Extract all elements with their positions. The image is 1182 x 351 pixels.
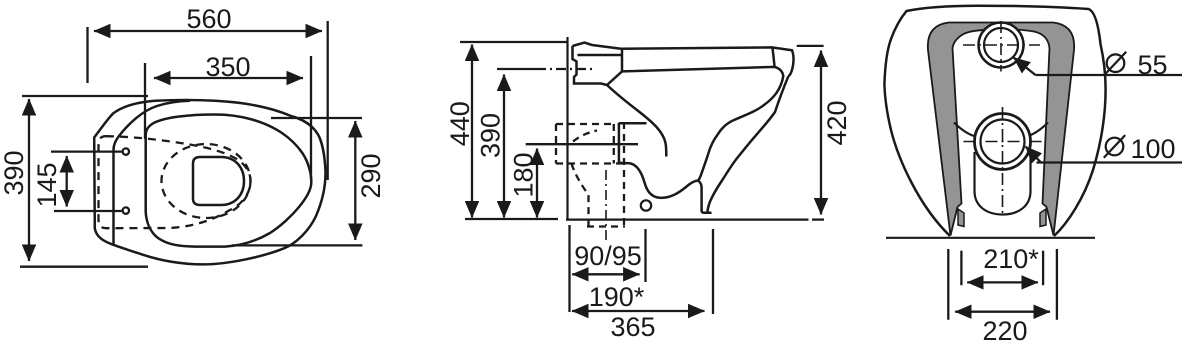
crosshair inlet horizontal (963, 44, 1040, 46)
hidden pipe dashed bottom (587, 225, 625, 227)
hidden spigot end dashed (613, 124, 615, 164)
dim 180 extension top (526, 143, 638, 145)
svg-text:190*: 190* (589, 282, 645, 312)
svg-text:100: 100 (1130, 134, 1175, 164)
floor line right view (886, 237, 1095, 239)
svg-text:420: 420 (822, 100, 852, 145)
dim 290 extension top (271, 117, 362, 119)
extension 210 left (960, 251, 962, 286)
wall extension below floor (568, 225, 570, 312)
dim 560 extension left (86, 27, 88, 83)
svg-text:220: 220 (982, 316, 1027, 346)
seat lid outer contour (94, 100, 325, 264)
gray notch right (1040, 209, 1046, 227)
ceramic outer contour (884, 6, 1105, 236)
hinge hole bottom (123, 207, 129, 213)
rim underside and inner leaf curve (622, 67, 783, 181)
hidden outlet dashed left (555, 124, 557, 164)
svg-text:145: 145 (32, 162, 62, 207)
svg-text:90/95: 90/95 (574, 241, 642, 271)
hidden elbow dashed (572, 164, 589, 227)
seat lid inner edge (114, 101, 191, 245)
hidden outlet dashed bottom (556, 162, 625, 164)
dim 390 extension bottom (20, 266, 148, 268)
svg-text:560: 560 (186, 4, 231, 34)
spud inner line (578, 54, 623, 57)
trap capsule (975, 152, 1031, 215)
hidden outlet dashed top (556, 123, 614, 125)
outer leaf curve (707, 76, 788, 213)
extension 220 left (947, 249, 949, 320)
dim 145 extension top (51, 150, 122, 152)
dim 390 extension top middle (497, 68, 536, 70)
dim 420 extension top (797, 45, 824, 47)
shared bottom extension line (465, 218, 558, 220)
dim 420 extension bottom (812, 218, 824, 220)
hidden bowl rim dashed oval (99, 136, 251, 228)
dim 220 arrow line (955, 311, 1050, 313)
dim 390 arrow line middle (503, 75, 505, 218)
bowl interior curve (607, 85, 666, 157)
leader O55 (1036, 74, 1182, 76)
hidden elbow inner dashed (573, 131, 597, 142)
seat joint divider (773, 48, 775, 67)
rim top line (621, 47, 794, 76)
gray notch left (958, 209, 964, 227)
label O100 (1104, 135, 1125, 158)
label O55 (1105, 52, 1126, 75)
seat ring outer oval (146, 115, 312, 247)
hammock curve right (1027, 123, 1049, 137)
wall line (566, 37, 568, 220)
dim 440 extension top (460, 41, 568, 43)
cone upper line (607, 71, 622, 85)
outlet circle outer (975, 114, 1031, 170)
water spot D shape (193, 157, 244, 205)
crosshair outlet vertical (1002, 107, 1004, 213)
flush spud outer top (573, 43, 622, 49)
dim 560 extension right (327, 21, 329, 180)
svg-text:290: 290 (356, 153, 386, 198)
extension 220 right (1056, 249, 1058, 320)
crosshair outlet horizontal (964, 141, 1045, 143)
svg-text:350: 350 (205, 52, 250, 82)
interior shelf line (619, 122, 647, 125)
rim left vertical (621, 49, 624, 72)
svg-text:390: 390 (0, 150, 29, 195)
dim 145 arrow line (66, 156, 68, 207)
svg-text:210*: 210* (983, 244, 1039, 274)
dim 290 extension bottom (232, 244, 362, 246)
extension 90/95 right (644, 229, 646, 282)
outlet circle inner (981, 120, 1025, 164)
gray U channel (928, 23, 1074, 236)
svg-text:180: 180 (509, 152, 539, 197)
dim 350 extension left (144, 63, 146, 139)
dim 390 extension top (22, 95, 148, 97)
svg-text:55: 55 (1137, 50, 1167, 80)
dim 350 extension right (310, 56, 312, 180)
outlet spigot end vertical (618, 123, 621, 163)
inlet circle inner (984, 28, 1018, 62)
dim 180 arrow line (536, 149, 538, 218)
dim 365 arrow line (572, 310, 705, 312)
floor line (566, 219, 809, 221)
hammock curve left (954, 123, 976, 137)
extension 365 right (712, 229, 714, 314)
dim 390 arrow line (28, 99, 30, 261)
foot and crotch (698, 181, 712, 213)
hinge hole top (123, 148, 129, 154)
dim 145 extension bottom (54, 210, 122, 212)
svg-text:390: 390 (476, 113, 506, 158)
dim 440 arrow line (471, 45, 473, 218)
dim 350 arrow line (154, 77, 303, 79)
underside dip curve (619, 163, 698, 198)
extension 210 right (1042, 251, 1044, 286)
dim 290 arrow line (354, 121, 356, 240)
dim 90/95 arrow line (572, 273, 639, 275)
dim 420 arrow line (820, 51, 822, 215)
water line dashed oval (162, 144, 251, 218)
pipe centerline dash-dot (605, 170, 607, 243)
fixing hole (641, 200, 651, 210)
hidden vertical pipe dashed right (623, 122, 625, 227)
svg-text:440: 440 (445, 101, 475, 146)
crosshair inlet vertical (1000, 21, 1002, 72)
spud left profile (573, 46, 608, 85)
inlet circle outer (979, 23, 1024, 68)
leader O100 (1037, 161, 1182, 163)
dim 210* arrow line (967, 281, 1038, 283)
svg-text:365: 365 (610, 312, 655, 342)
dim 560 arrow line (94, 30, 322, 32)
